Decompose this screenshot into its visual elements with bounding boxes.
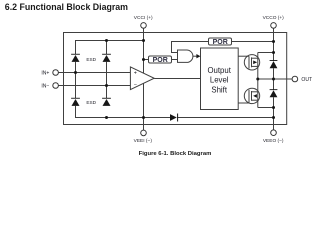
svg-text:VEEI (−): VEEI (−) — [134, 138, 153, 144]
comparator U1 triangle — [130, 67, 154, 90]
diode D1 ESD upper-left — [72, 55, 80, 62]
diode D3 ESD lower-left — [72, 99, 80, 106]
wire ESD bottom rail (left part up to series diode) — [76, 106, 171, 118]
wire lower POR to AND gate input B — [172, 59, 178, 61]
wire body diode column D6 to source node — [273, 97, 275, 117]
svg-text:IN−: IN− — [41, 83, 49, 89]
svg-text:Level: Level — [210, 76, 229, 85]
svg-text:IN+: IN+ — [41, 70, 49, 76]
junction VEEO column at bottom rail — [272, 116, 275, 119]
wire lower MOSFET drain/source column — [257, 79, 259, 108]
junction OUT node at body diode column — [272, 78, 275, 81]
junction IN+ line at D1/D3 column — [74, 71, 77, 74]
wire ESD right column IN- to D4 — [106, 86, 108, 99]
wire IN- line — [58, 85, 130, 87]
svg-text:−: − — [134, 82, 137, 88]
svg-text:VCCI (+): VCCI (+) — [134, 15, 153, 21]
terminal IN+ — [53, 70, 59, 76]
junction bottom rail at VEEI column — [142, 116, 145, 119]
wire IN+ line — [58, 72, 130, 74]
wire AND output — [193, 55, 197, 57]
svg-text:POR: POR — [213, 39, 228, 46]
wire comparator output to level shift box — [154, 78, 200, 80]
svg-text:VEEO (−): VEEO (−) — [263, 138, 284, 144]
wire upper MOSFET source/drain column to OUT node — [257, 53, 259, 80]
wire ESD right column rail to D2 — [106, 41, 108, 55]
POR U2 lower box — [149, 56, 172, 63]
junction on VCCI rail at D2 column — [105, 39, 108, 42]
svg-text:VCCO (+): VCCO (+) — [263, 15, 285, 21]
AND gate U4 — [178, 50, 193, 62]
junction VCCO line at upper POR output — [272, 40, 275, 43]
terminal IN- — [53, 83, 59, 89]
svg-text:OUT: OUT — [301, 77, 312, 83]
arrowhead AND gate output — [196, 54, 200, 58]
wire ESD top rail with left corner down to diode D1 — [76, 41, 144, 55]
arrow PMOS body points right — [253, 61, 257, 65]
diode D4 ESD lower-right — [103, 99, 111, 106]
wire upper POR to AND gate input A — [172, 42, 209, 53]
junction VCCI line at lower POR tap — [142, 58, 145, 61]
svg-text:ESD: ESD — [86, 57, 96, 62]
wire lower MOSFET gate — [238, 102, 249, 104]
wire VEE rail right of series diode — [177, 117, 273, 119]
junction Q2 source at diode column — [272, 106, 275, 109]
IC outer boundary box — [64, 33, 287, 125]
svg-text:Figure 6-1. Block Diagram: Figure 6-1. Block Diagram — [139, 151, 212, 157]
diode D2 ESD upper-right — [103, 55, 111, 62]
terminal OUT — [292, 76, 298, 82]
terminal VEEO — [271, 130, 277, 136]
terminal VEEI — [141, 130, 147, 136]
wire VCCO vertical from terminal to body diode D5 — [273, 28, 275, 60]
wire VEEO drop to terminal — [273, 118, 275, 130]
svg-text:POR: POR — [153, 57, 168, 64]
wire ESD left column D1 to IN+ — [75, 62, 77, 73]
junction bottom rail at D4 column — [105, 116, 108, 119]
wire lower MOSFET source to VEEO column — [258, 107, 274, 109]
wire VCCI vertical down to comparator and bottom rail — [143, 28, 145, 117]
terminal VCCI — [141, 23, 147, 29]
diode D5 body upper — [270, 61, 278, 68]
Output Level Shift block U5 — [201, 48, 239, 110]
transistor Q1 PMOS — [244, 55, 259, 70]
transistor Q2 NMOS — [244, 88, 259, 103]
svg-text:ESD: ESD — [86, 100, 96, 105]
diode D7 series in VEE rail — [170, 114, 177, 121]
arrow NMOS body points left — [253, 94, 257, 98]
wire VCCI tap to lower POR — [144, 59, 149, 61]
terminal VCCO — [271, 23, 277, 29]
junction VCCO line at Q1 source wire — [272, 51, 275, 54]
svg-text:6.2 Functional Block Diagram: 6.2 Functional Block Diagram — [5, 2, 128, 12]
wire upper POR to VCCO rail — [232, 41, 274, 43]
wire ESD left column IN+ to D3 — [75, 73, 77, 99]
diode D6 body lower — [270, 90, 278, 97]
svg-text:Shift: Shift — [211, 85, 227, 94]
svg-text:Output: Output — [207, 66, 231, 75]
wire ESD right column D2 to IN- — [106, 62, 108, 86]
wire upper MOSFET gate — [238, 55, 249, 57]
wire VCCO to upper MOSFET source — [258, 52, 274, 54]
wire OUT — [258, 78, 292, 80]
svg-text:+: + — [134, 70, 137, 76]
wire body diode column D5 to OUT — [273, 68, 275, 89]
wire VEEI drop to terminal — [143, 118, 145, 131]
junction VCCI line at ESD top rail — [142, 39, 145, 42]
junction OUT node at MOSFET drain column — [256, 78, 259, 81]
junction IN- line at D2/D4 column — [105, 84, 108, 87]
POR U3 upper box — [209, 38, 232, 45]
